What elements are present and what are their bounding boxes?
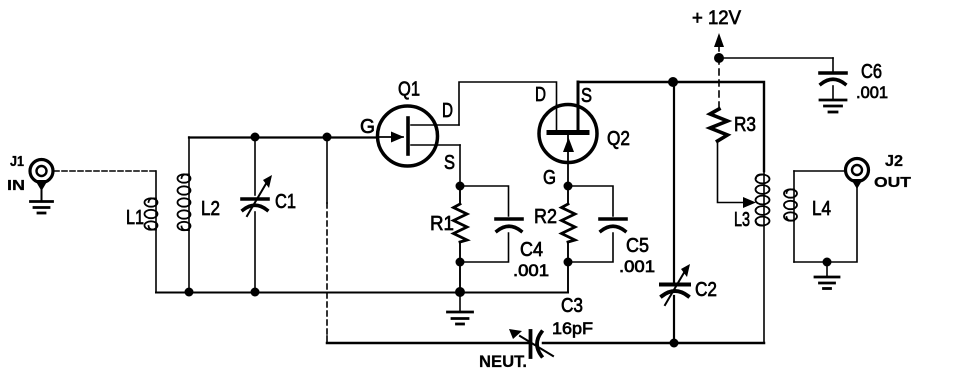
svg-text:NEUT.: NEUT. — [479, 352, 527, 368]
svg-text:OUT: OUT — [874, 174, 911, 191]
ground (R1) — [448, 293, 473, 324]
svg-text:.001: .001 — [513, 261, 549, 280]
svg-text:R3: R3 — [734, 114, 756, 136]
inductor L1 — [145, 171, 158, 292]
svg-text:Q2: Q2 — [607, 128, 630, 150]
inductor L4 — [784, 171, 797, 262]
node L4 ground — [823, 258, 832, 267]
svg-text:S: S — [444, 152, 455, 174]
svg-text:Q1: Q1 — [398, 79, 420, 101]
capacitor C6 — [820, 58, 846, 99]
resistor R1 — [454, 186, 468, 262]
node L2 bottom — [185, 288, 194, 297]
node R2 bottom — [564, 258, 573, 267]
node R1 top — [456, 182, 465, 191]
svg-text:J2: J2 — [885, 153, 903, 170]
svg-text:L2: L2 — [201, 198, 220, 220]
svg-text:L1: L1 — [126, 207, 144, 229]
svg-text:D: D — [535, 84, 546, 106]
svg-text:J1: J1 — [10, 154, 24, 170]
transistor Q1 (JFET) — [377, 106, 460, 166]
wire L4 bottom / J2 return — [794, 184, 857, 262]
svg-text:L3: L3 — [734, 209, 750, 231]
wire R1 bottom to ground rail — [459, 262, 461, 292]
wire C2 branch vertical — [673, 82, 675, 343]
inductor L2 — [178, 137, 191, 292]
wire L4 top to J2 — [794, 170, 845, 172]
wire mid ground rail — [156, 292, 568, 294]
svg-text:.001: .001 — [856, 83, 888, 102]
connector J1 — [30, 160, 53, 201]
connector J2 — [846, 159, 869, 190]
svg-text:IN: IN — [7, 178, 25, 194]
+12V supply arrow — [714, 33, 724, 57]
node +12V — [714, 53, 724, 63]
svg-text:D: D — [442, 100, 453, 122]
capacitor C3 (variable, NEUT) — [509, 329, 553, 357]
wire gate bus — [189, 136, 377, 138]
wire supply node to L3 top — [673, 82, 764, 171]
svg-text:.001: .001 — [619, 257, 655, 276]
wire +12V node to C6 — [719, 57, 833, 59]
svg-text:+ 12V: + 12V — [692, 8, 741, 29]
svg-text:16pF: 16pF — [552, 319, 593, 338]
svg-text:S: S — [581, 85, 592, 107]
ground (L4) — [815, 262, 839, 289]
node R1 bottom — [456, 258, 465, 267]
svg-text:C6: C6 — [861, 61, 882, 83]
wire R2 bottom to rail end — [567, 262, 569, 292]
svg-text:L4: L4 — [812, 198, 831, 220]
node C1 top — [251, 133, 260, 142]
svg-text:C5: C5 — [626, 235, 649, 257]
node rail/ground — [455, 287, 465, 297]
node C1 bottom — [251, 288, 260, 297]
svg-text:G: G — [360, 116, 375, 138]
capacitor C2 (variable) — [661, 264, 690, 305]
node supply — [668, 77, 678, 87]
node C2 bottom rail — [670, 339, 679, 348]
wire +12V node to R3 (dashed) — [718, 58, 720, 109]
capacitor C4 — [460, 186, 522, 262]
resistor R2 — [562, 186, 576, 262]
capacitor C5 — [568, 186, 626, 262]
wire R3 to L3 tap — [718, 141, 757, 208]
svg-text:C4: C4 — [520, 239, 543, 261]
ground (C6) — [820, 100, 846, 112]
wire bottom neutralization rail — [327, 342, 764, 345]
wire neutralization drop (gate to C3 rail) — [326, 137, 328, 343]
svg-text:C2: C2 — [695, 279, 717, 301]
svg-text:G: G — [543, 167, 556, 189]
transistor Q2 (JFET) — [539, 82, 597, 186]
wire Q1 drain up-over to Q2 drain — [459, 82, 557, 125]
svg-text:C3: C3 — [561, 295, 583, 317]
wire Q2 source to supply node — [578, 81, 673, 84]
node R2 top (Q2 gate) — [564, 182, 573, 191]
inductor L3 (tapped) — [756, 169, 770, 343]
svg-text:R1: R1 — [430, 213, 454, 235]
wire Q1 source to R1 — [459, 145, 461, 186]
wire J1 to L1 (dashed) — [54, 170, 156, 172]
resistor R3 — [710, 109, 728, 141]
ground (J1) — [31, 202, 53, 214]
svg-text:C1: C1 — [275, 191, 296, 213]
capacitor C1 (variable) — [242, 137, 272, 292]
node gate/neut — [323, 133, 332, 142]
svg-text:R2: R2 — [534, 206, 557, 228]
